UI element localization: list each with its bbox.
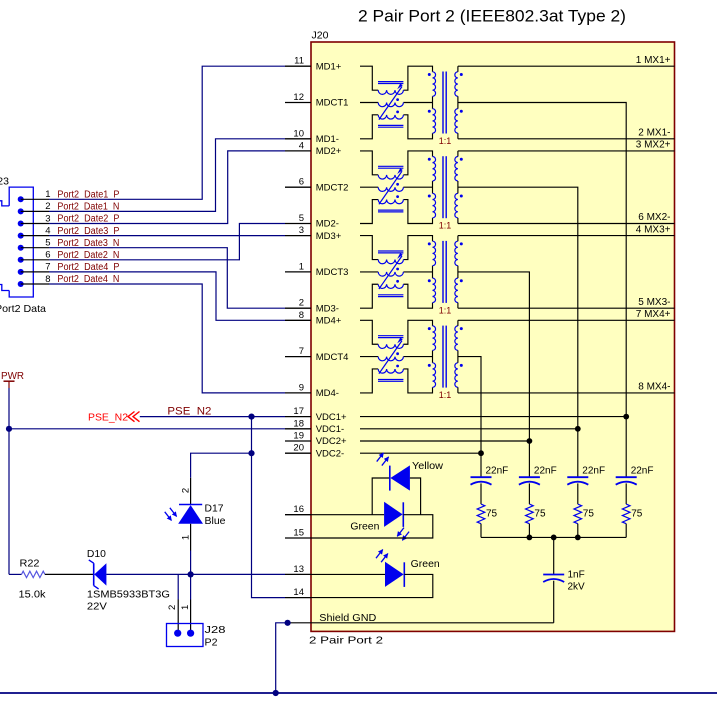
wire shield to border	[276, 623, 288, 693]
junction bottom rail at 578	[575, 535, 581, 541]
svg-text:8: 8	[45, 274, 50, 285]
resistor 75 #3	[574, 504, 582, 524]
svg-text:1:1: 1:1	[439, 221, 452, 231]
svg-text:2 MX1-: 2 MX1-	[638, 128, 670, 139]
wire green LED cathode to pin15	[311, 515, 433, 538]
svg-text:MD3+: MD3+	[316, 231, 342, 242]
svg-text:5: 5	[45, 238, 50, 249]
wire resistor #1 to rail	[480, 524, 482, 538]
junction D17 / R22 row	[188, 571, 194, 577]
svg-text:MD2-: MD2-	[316, 219, 339, 230]
transformer T2 secondary windings	[455, 157, 458, 182]
svg-text:1nF: 1nF	[568, 570, 585, 581]
junction bottom rail at 1nF branch	[551, 535, 557, 541]
pin 2 MD3-	[285, 307, 311, 309]
choke L4 phase dots	[396, 352, 399, 355]
pin 7 MDCT4	[285, 356, 311, 358]
connector J23 pin 8	[18, 281, 24, 287]
svg-text:Green: Green	[350, 522, 379, 533]
wire D17 top branch	[191, 453, 252, 478]
wire PWR vertical	[8, 388, 10, 574]
transformer T4 primary-side wiring	[360, 320, 378, 344]
svg-text:75: 75	[631, 509, 643, 520]
svg-text:17: 17	[293, 406, 304, 417]
wire T2 secondary center tap to VDC	[458, 187, 578, 429]
choke L3 core	[378, 250, 403, 252]
wire VDC1- rail	[360, 428, 578, 430]
svg-text:MD4-: MD4-	[316, 388, 339, 399]
svg-text:22nF: 22nF	[582, 466, 605, 477]
transformer T1 phase dots	[428, 73, 431, 76]
pin 12 MDCT1	[285, 102, 311, 104]
pin 9 MD4-	[285, 392, 311, 394]
transformer T4 secondary windings	[455, 326, 458, 351]
svg-text:VDC2-: VDC2-	[316, 448, 345, 459]
wire J23 pin 6 route	[49, 224, 285, 260]
svg-text:2kV: 2kV	[568, 582, 586, 593]
svg-text:2: 2	[180, 488, 191, 493]
svg-text:Shield GND: Shield GND	[319, 613, 376, 624]
pin 17 VDC1+	[285, 416, 311, 418]
wire J23 pin 7 route	[49, 272, 285, 320]
LED D17 pin 2 stub	[190, 478, 192, 505]
wire resistor #2 to rail	[528, 524, 530, 538]
junction bottom rail at 529	[527, 535, 533, 541]
svg-text:1:1: 1:1	[439, 305, 452, 315]
pin 16	[285, 514, 311, 516]
common-mode choke L1 windings	[378, 90, 403, 94]
svg-text:1SMB5933BT3G: 1SMB5933BT3G	[87, 590, 170, 601]
pin 19 VDC2+	[285, 440, 311, 442]
transformer T1 primary windings	[433, 72, 436, 97]
resistor 75 #4	[622, 504, 630, 524]
svg-text:10: 10	[293, 128, 304, 139]
svg-text:1 MX1+: 1 MX1+	[636, 55, 671, 66]
transformer T3 phase dots	[428, 242, 431, 245]
wire J23 pin 3 route	[49, 151, 285, 224]
junction VDC1- / center-tap	[575, 426, 581, 432]
svg-text:R22: R22	[20, 559, 40, 570]
pin 13	[285, 573, 311, 575]
transformer T2 primary windings	[433, 157, 436, 182]
pin 20 VDC2-	[285, 452, 311, 454]
wire center-tap branch 1	[480, 453, 482, 477]
wire center-tap branch 3	[577, 429, 579, 477]
choke L4 arrow	[379, 341, 402, 374]
svg-text:7: 7	[45, 262, 50, 273]
wire yellow loop right side	[410, 478, 421, 515]
pin 14	[285, 597, 311, 599]
LED D17 pin 1 stub	[190, 524, 192, 551]
wire T3 secondary center tap to VDC	[458, 272, 530, 441]
transformer T1 core	[442, 72, 444, 134]
pin 15	[285, 537, 311, 539]
svg-text:2: 2	[45, 201, 50, 212]
wire pin16 to green LED anode	[311, 514, 384, 516]
svg-text:2 Pair Port 2 (IEEE802.3at Typ: 2 Pair Port 2 (IEEE802.3at Type 2)	[358, 8, 626, 26]
wire J28 pin1 drop	[190, 574, 192, 599]
transformer T3 core	[442, 241, 444, 303]
svg-text:13: 13	[293, 564, 304, 575]
wire MX1- output	[458, 138, 675, 140]
LED D_green2 (Green)	[385, 562, 404, 587]
svg-text:J23: J23	[0, 176, 9, 188]
wire pin13 to green LED 2 anode	[311, 573, 385, 575]
svg-text:5: 5	[299, 213, 304, 224]
wire center-tap branch 4	[625, 417, 627, 478]
wire MX4- output	[458, 392, 675, 394]
choke L1 core	[378, 81, 403, 83]
wire VDC1- to PWR	[9, 428, 285, 430]
svg-text:6: 6	[299, 177, 304, 188]
connector J23 pin 6	[18, 257, 24, 263]
junction VDC2- / center-tap	[478, 450, 484, 456]
pin 8 MD4+	[285, 319, 311, 321]
svg-text:4: 4	[45, 225, 50, 236]
wire branch up to yellow loop	[372, 478, 390, 515]
resistor 75 #1	[477, 504, 485, 524]
pin 5 MD2-	[285, 223, 311, 225]
choke L4 core	[378, 335, 403, 337]
capacitor 22nF #1	[471, 476, 492, 478]
svg-text:VDC1-: VDC1-	[316, 424, 345, 435]
junction PWR / VDC1- wire	[6, 426, 12, 432]
transformer T2 core	[442, 156, 444, 218]
svg-text:1:1: 1:1	[439, 390, 452, 400]
svg-text:75: 75	[583, 509, 595, 520]
wire termination bottom rail	[481, 536, 626, 538]
wire 1nF branch	[553, 537, 555, 574]
pin 11 MD1+	[285, 65, 311, 67]
pin 18 VDC1-	[285, 428, 311, 430]
transformer T4 core	[442, 326, 444, 388]
svg-text:3 MX2+: 3 MX2+	[636, 140, 671, 151]
svg-text:15: 15	[293, 528, 304, 539]
svg-text:22nF: 22nF	[534, 466, 557, 477]
svg-text:D10: D10	[87, 549, 106, 560]
svg-text:Green: Green	[411, 559, 440, 570]
svg-text:22nF: 22nF	[486, 466, 509, 477]
junction shield	[285, 620, 291, 626]
wire Shield GND	[288, 622, 554, 624]
svg-text:22nF: 22nF	[631, 466, 654, 477]
transformer T4 phase dots	[428, 327, 431, 330]
choke L2 phase dots	[396, 183, 399, 186]
transformer T1 primary-side wiring	[360, 66, 378, 90]
LED D_yellow (Yellow)	[389, 466, 391, 491]
junction vertical / D17 branch	[248, 450, 254, 456]
svg-text:VDC2+: VDC2+	[316, 436, 347, 447]
svg-text:1: 1	[180, 535, 191, 540]
resistor 75 #2	[526, 504, 534, 524]
connector J28 pin 2 stub	[177, 600, 179, 634]
choke L2 core	[378, 165, 403, 167]
common-mode choke L4 windings	[378, 344, 403, 348]
wire J23 pin 4 route	[49, 235, 285, 237]
svg-text:MD4+: MD4+	[316, 316, 342, 327]
svg-text:Port2 Data: Port2 Data	[0, 303, 46, 315]
connector J23 pin 4	[18, 233, 24, 239]
svg-text:D17: D17	[205, 504, 224, 515]
svg-text:75: 75	[534, 509, 546, 520]
transformer T2 primary-side wiring	[360, 151, 378, 175]
connector J23 body	[9, 187, 33, 297]
wire MX2- output	[458, 223, 675, 225]
pin 6 MDCT2	[285, 186, 311, 188]
transformer T2 phase dots	[428, 158, 431, 161]
wire VDC2+ rail	[360, 440, 529, 442]
svg-text:7: 7	[299, 346, 304, 357]
svg-text:4 MX3+: 4 MX3+	[636, 224, 671, 235]
svg-text:MD1-: MD1-	[316, 134, 339, 145]
connector J23 pin 1	[18, 196, 24, 202]
svg-text:MDCT4: MDCT4	[316, 352, 349, 363]
svg-text:8: 8	[299, 310, 304, 321]
wire MX4+ output	[458, 319, 675, 321]
wire T4 secondary center tap to VDC	[458, 357, 481, 454]
wire MX3- output	[458, 307, 675, 309]
svg-text:3: 3	[45, 213, 50, 224]
svg-text:3: 3	[299, 225, 304, 236]
svg-text:18: 18	[293, 418, 304, 429]
sheet border line	[0, 692, 717, 694]
choke L1 phase dots	[396, 98, 399, 101]
wire J28 pin2 drop	[177, 574, 179, 599]
common-mode choke L3 windings	[378, 260, 403, 264]
capacitor 22nF #2	[519, 476, 540, 478]
resistor R22	[22, 571, 45, 577]
pin 10 MD1-	[285, 138, 311, 140]
wire VDC2- rail	[360, 452, 481, 454]
transformer T3 secondary windings	[455, 241, 458, 266]
wire vertical PSE_N2 net down to pin 14	[252, 417, 286, 598]
wire PWR corner to R22	[9, 573, 22, 575]
choke L3 phase dots	[396, 268, 399, 271]
svg-text:16: 16	[293, 504, 304, 515]
zener diode D10	[93, 563, 95, 585]
wire PSE_N2 to pin 17	[140, 416, 285, 418]
connector J23 pin 3	[18, 221, 24, 227]
junction VDC2+ / center-tap	[527, 438, 533, 444]
LED D17 Blue	[179, 504, 202, 506]
wire green LED 2 cathode to pin14	[311, 574, 433, 597]
wire J23 pin 1 route	[49, 66, 285, 199]
choke L3 arrow	[379, 256, 402, 289]
wire MX2+ output	[458, 150, 675, 152]
svg-text:1: 1	[45, 189, 50, 200]
svg-text:PSE_N2: PSE_N2	[167, 405, 211, 417]
pin 3 MD3+	[285, 235, 311, 237]
svg-text:MDCT1: MDCT1	[316, 98, 349, 109]
svg-text:6 MX2-: 6 MX2-	[638, 212, 670, 223]
wire J23 pin 8 route	[49, 284, 285, 393]
capacitor 22nF #3	[567, 476, 588, 478]
svg-text:5 MX3-: 5 MX3-	[638, 297, 670, 308]
svg-text:4: 4	[299, 140, 304, 151]
capacitor 1nF 2kV	[543, 574, 564, 576]
transformer T4 primary windings	[433, 326, 436, 351]
transformer T3 primary windings	[433, 241, 436, 266]
svg-text:P2: P2	[205, 638, 218, 649]
connector J23 pin 7	[18, 269, 24, 275]
svg-text:20: 20	[293, 443, 304, 454]
svg-text:19: 19	[293, 431, 304, 442]
wire J23 pin 2 route	[49, 139, 285, 212]
connector J28 pin 1 stub	[190, 600, 192, 634]
capacitor 22nF #4	[616, 476, 637, 478]
svg-text:1: 1	[180, 605, 191, 610]
wire VDC1+ rail	[360, 416, 626, 418]
svg-text:MD2+: MD2+	[316, 146, 342, 157]
svg-text:2 Pair Port 2: 2 Pair Port 2	[309, 635, 383, 647]
svg-text:14: 14	[293, 587, 304, 598]
svg-text:6: 6	[45, 250, 50, 261]
svg-text:11: 11	[294, 56, 304, 67]
svg-text:15.0k: 15.0k	[19, 590, 47, 601]
svg-text:2: 2	[167, 605, 178, 610]
connector J28 pin 1	[187, 630, 194, 637]
pin 4 MD2+	[285, 150, 311, 152]
connector J28 body	[167, 624, 204, 647]
wire resistor #3 to rail	[577, 524, 579, 538]
pin 1 MDCT3	[285, 271, 311, 273]
wire MX3+ output	[458, 235, 675, 237]
wire resistor #4 to rail	[625, 524, 627, 538]
svg-text:MD1+: MD1+	[316, 61, 342, 72]
connector block J20 body	[311, 42, 675, 631]
svg-text:Blue: Blue	[205, 516, 226, 527]
connector J23 pin 2	[18, 208, 24, 214]
common-mode choke L2 windings	[378, 175, 403, 179]
wire D10 to pin 13 net	[106, 573, 285, 575]
wire D17 to junction	[190, 551, 192, 575]
svg-text:MDCT2: MDCT2	[316, 182, 349, 193]
svg-text:8 MX4-: 8 MX4-	[638, 382, 670, 393]
svg-text:7 MX4+: 7 MX4+	[636, 309, 671, 320]
junction at sheet border	[273, 690, 279, 696]
connector J23 pin 5	[18, 245, 24, 251]
wire R22 to D10	[45, 573, 94, 575]
svg-text:22V: 22V	[87, 602, 107, 613]
svg-text:MDCT3: MDCT3	[316, 267, 349, 278]
svg-text:2: 2	[299, 298, 304, 309]
svg-text:Yellow: Yellow	[412, 461, 444, 472]
svg-text:1: 1	[299, 261, 304, 272]
transformer T1 secondary windings	[455, 72, 458, 97]
svg-text:VDC1+: VDC1+	[316, 412, 347, 423]
wire center-tap branch 2	[528, 441, 530, 477]
LED D_green1 (Green)	[384, 502, 403, 527]
connector J28 pin 2	[174, 630, 181, 637]
junction VDC1+ / center-tap	[623, 414, 629, 420]
wire MX1+ output	[458, 65, 675, 67]
svg-text:MD3-: MD3-	[316, 303, 339, 314]
svg-text:9: 9	[299, 382, 304, 393]
svg-text:1:1: 1:1	[439, 136, 452, 146]
yellow LED emission arrows	[382, 457, 389, 466]
choke L1 arrow	[379, 87, 402, 120]
transformer T3 primary-side wiring	[360, 236, 378, 260]
wire T1 secondary center tap to VDC	[458, 103, 626, 417]
svg-text:12: 12	[293, 92, 304, 103]
svg-text:PSE_N2: PSE_N2	[88, 412, 128, 423]
svg-text:J28: J28	[205, 625, 227, 636]
svg-text:75: 75	[486, 509, 498, 520]
choke L2 arrow	[379, 171, 402, 204]
svg-text:PWR: PWR	[1, 370, 24, 382]
wire J23 pin 5 route	[49, 248, 285, 309]
junction PSE_N2 / vertical	[248, 414, 254, 420]
svg-text:J20: J20	[312, 30, 329, 42]
